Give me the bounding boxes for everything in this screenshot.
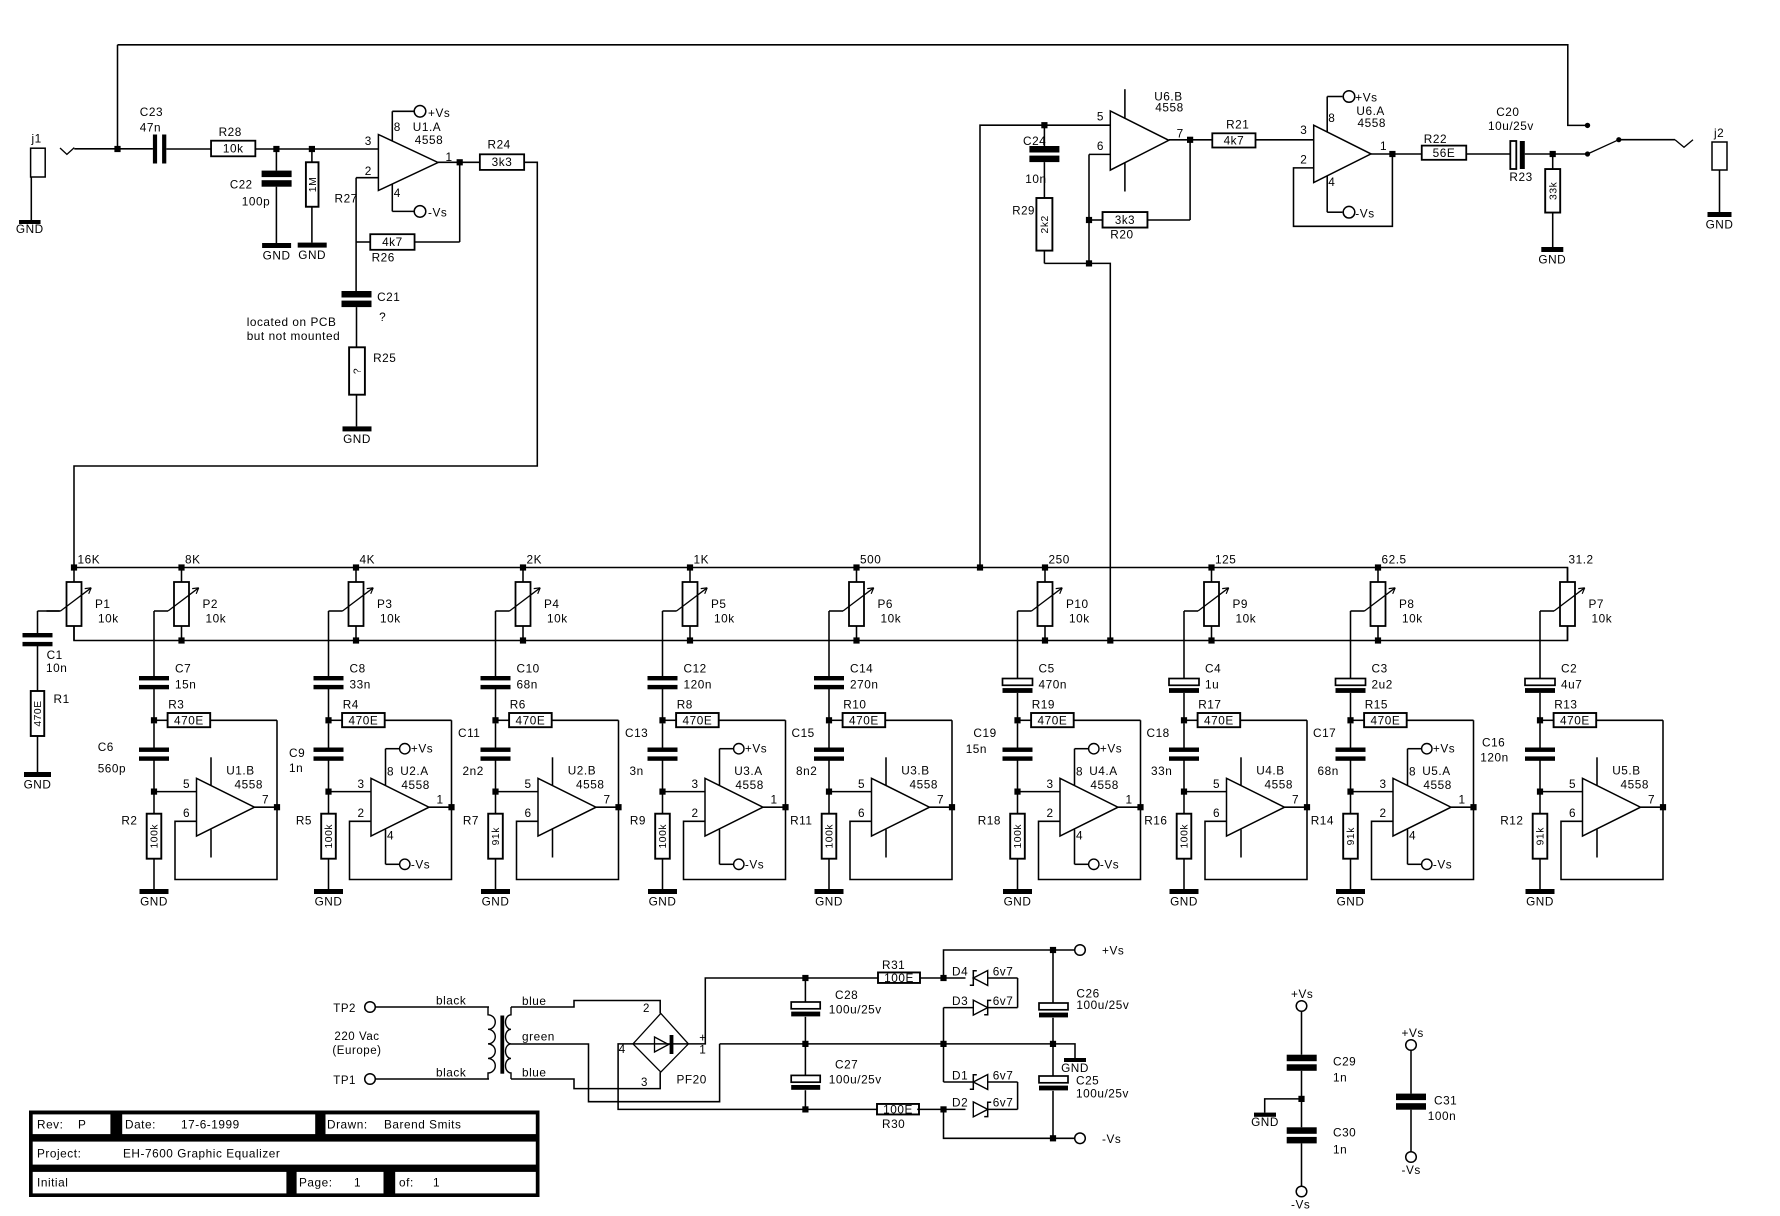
capacitor C13 3n — [625, 723, 678, 791]
svg-text:U1.A: U1.A — [413, 120, 441, 134]
node 500 — [860, 553, 881, 567]
capacitor C21 ? (not mounted) — [342, 242, 401, 324]
junction op-amp input node — [826, 789, 832, 795]
power stubs U6.B — [1124, 89, 1126, 191]
resistor R10 470E — [829, 698, 952, 728]
svg-text:2: 2 — [1300, 152, 1307, 166]
svg-text:blue: blue — [522, 994, 547, 1008]
node 16K — [78, 553, 101, 567]
svg-text:R30: R30 — [882, 1117, 905, 1131]
resistor R27 1M — [306, 149, 358, 243]
svg-text:GND: GND — [298, 248, 326, 262]
wire P9 wiper to C4 — [1183, 611, 1185, 679]
svg-text:250: 250 — [1049, 553, 1070, 567]
switch output select — [1585, 137, 1622, 157]
svg-text:P3: P3 — [377, 597, 393, 611]
capacitor C28 100u/25v — [791, 978, 882, 1044]
svg-text:10k: 10k — [881, 612, 902, 626]
svg-text:8K: 8K — [185, 553, 201, 567]
svg-text:4: 4 — [394, 186, 401, 200]
svg-text:U3.B: U3.B — [901, 764, 929, 778]
svg-text:2K: 2K — [527, 553, 543, 567]
wire R26 to output junction — [415, 162, 460, 242]
svg-text:91k: 91k — [1536, 827, 1547, 846]
node 4K — [360, 553, 376, 567]
svg-text:C31: C31 — [1434, 1094, 1457, 1108]
svg-text:2: 2 — [358, 806, 365, 820]
svg-text:P4: P4 — [544, 597, 560, 611]
junction top bus P4 — [520, 564, 526, 570]
svg-text:located on PCB: located on PCB — [247, 315, 337, 329]
svg-text:470E: 470E — [849, 713, 879, 727]
title text of — [399, 1176, 440, 1190]
svg-text:+Vs: +Vs — [1100, 742, 1122, 756]
wire R28 to U1.A pin 3 — [256, 148, 379, 150]
svg-text:R20: R20 — [1110, 228, 1133, 242]
svg-text:470E: 470E — [516, 713, 546, 727]
svg-text:U4.B: U4.B — [1256, 764, 1284, 778]
junction bottom bus pin6 riser — [1107, 637, 1113, 643]
svg-text:C16: C16 — [1482, 736, 1505, 750]
wire P10 wiper to C5 — [1017, 611, 1019, 679]
svg-text:100k: 100k — [1180, 824, 1191, 849]
svg-text:10n: 10n — [1025, 172, 1046, 186]
svg-text:C12: C12 — [684, 661, 707, 675]
wire TP2 to transformer primary (black) — [375, 994, 489, 1008]
ground R2 — [140, 889, 169, 909]
svg-text:4558: 4558 — [1423, 778, 1451, 792]
wire bridge pin 4 to negative rail — [618, 1044, 879, 1110]
svg-text:6v7: 6v7 — [993, 994, 1014, 1008]
ground C29/C30 — [1251, 1113, 1279, 1130]
capacitor C8 33n — [314, 661, 371, 720]
junction U5.B output — [1660, 804, 1666, 810]
wire U2.B feedback loop — [517, 720, 619, 879]
title text initial — [37, 1176, 68, 1190]
svg-text:C6: C6 — [98, 740, 114, 754]
svg-text:P7: P7 — [1589, 597, 1605, 611]
svg-text:8: 8 — [1328, 111, 1335, 125]
svg-text:62.5: 62.5 — [1382, 553, 1407, 567]
svg-text:4558: 4558 — [576, 777, 604, 791]
svg-text:470E: 470E — [33, 700, 44, 726]
svg-text:4: 4 — [1076, 829, 1083, 843]
junction U3.B output — [949, 804, 955, 810]
svg-text:Initial: Initial — [37, 1176, 68, 1190]
capacitor C10 68n — [481, 661, 540, 720]
resistor R7 91k — [463, 792, 503, 889]
capacitor C15 8n2 — [792, 723, 845, 791]
pin 8 +Vs U2.A — [386, 742, 434, 785]
terminal +Vs C31 — [1402, 1026, 1424, 1050]
node 62.5 — [1382, 553, 1407, 567]
zener diode D3 6v7 — [952, 994, 1013, 1015]
svg-text:33k: 33k — [1548, 181, 1559, 200]
resistor R11 100k — [790, 792, 836, 889]
node 31.2 — [1569, 553, 1594, 567]
junction R29 / pin6 node — [1086, 260, 1092, 266]
power stubs U2.B — [552, 757, 554, 857]
bridge rectifier PF20 — [619, 1003, 707, 1089]
svg-text:100p: 100p — [242, 195, 270, 209]
node 125 — [1215, 553, 1236, 567]
wire D3 to 0V rail — [944, 1008, 974, 1044]
wire TP1 to transformer primary (black) — [375, 1066, 489, 1080]
svg-text:5: 5 — [858, 777, 865, 791]
svg-text:R4: R4 — [343, 698, 359, 712]
terminal -Vs C31 — [1402, 1152, 1421, 1177]
junction bottom bus P5 — [687, 637, 693, 643]
op-amp U1.B 4558 — [183, 764, 269, 836]
terminal -Vs C30 — [1291, 1186, 1310, 1211]
capacitor C17 68n — [1313, 723, 1366, 791]
svg-text:C28: C28 — [835, 988, 858, 1002]
svg-text:?: ? — [379, 310, 386, 324]
capacitor C31 100n — [1396, 1050, 1457, 1151]
svg-text:R29: R29 — [1012, 206, 1035, 218]
svg-text:Date:: Date: — [125, 1118, 156, 1132]
svg-text:6v7: 6v7 — [993, 1096, 1014, 1110]
potentiometer P2 10k — [154, 568, 226, 641]
svg-text:Rev:: Rev: — [37, 1118, 63, 1132]
junction top bus P9 — [1208, 564, 1214, 570]
svg-text:+Vs: +Vs — [1291, 987, 1313, 1001]
wire U1.A output — [438, 161, 480, 163]
wire D1 to 0V rail — [944, 1044, 974, 1082]
svg-text:R6: R6 — [510, 698, 526, 712]
svg-text:100k: 100k — [1013, 824, 1024, 849]
wire to U4.A +input — [1018, 791, 1061, 793]
op-amp U4.B 4558 — [1213, 764, 1299, 836]
svg-text:R23: R23 — [1509, 170, 1532, 184]
svg-text:7: 7 — [1177, 127, 1184, 141]
capacitor C29 1n — [1287, 1011, 1357, 1127]
svg-text:2: 2 — [365, 164, 372, 178]
resistor R3 470E — [154, 698, 277, 728]
wire P2 wiper to C7 — [153, 611, 155, 676]
svg-text:j2: j2 — [1713, 126, 1724, 140]
resistor R15 470E — [1351, 698, 1474, 728]
terminal +Vs C29 — [1291, 987, 1313, 1011]
svg-text:GND: GND — [343, 432, 371, 446]
svg-text:470E: 470E — [1371, 713, 1401, 727]
node bypass contact dot — [1585, 123, 1590, 128]
svg-text:C11: C11 — [458, 726, 480, 740]
svg-text:7: 7 — [937, 793, 944, 807]
svg-text:1n: 1n — [289, 761, 303, 775]
svg-text:100u/25v: 100u/25v — [829, 1072, 882, 1086]
ground R9 — [648, 889, 677, 909]
svg-text:U4.A: U4.A — [1089, 764, 1117, 778]
svg-text:3: 3 — [1047, 777, 1054, 791]
svg-text:31.2: 31.2 — [1569, 553, 1594, 567]
svg-text:R28: R28 — [219, 125, 242, 139]
svg-text:C18: C18 — [1147, 726, 1170, 740]
junction R10 node — [826, 717, 832, 723]
resistor R18 100k — [978, 792, 1025, 889]
resistor R19 470E — [1018, 698, 1141, 728]
wire top bypass bus — [118, 45, 1588, 126]
svg-text:R10: R10 — [843, 698, 866, 712]
svg-text:10k: 10k — [206, 612, 227, 626]
svg-text:C17: C17 — [1313, 726, 1336, 740]
svg-text:10k: 10k — [380, 612, 401, 626]
svg-text:100u/25v: 100u/25v — [829, 1002, 882, 1016]
junction R8 node — [659, 717, 665, 723]
svg-text:100k: 100k — [324, 824, 335, 849]
svg-text:U3.A: U3.A — [734, 764, 762, 778]
svg-text:2n2: 2n2 — [463, 764, 484, 778]
junction op-amp input node — [659, 789, 665, 795]
power stubs U4.B — [1240, 757, 1242, 857]
junction top bus P5 — [687, 564, 693, 570]
svg-text:4558: 4558 — [1155, 101, 1183, 115]
svg-text:-Vs: -Vs — [745, 857, 764, 871]
potentiometer P1 10k — [47, 568, 119, 641]
junction top bus U6.B riser — [977, 564, 983, 570]
junction R4 node — [325, 717, 331, 723]
svg-text:R31: R31 — [882, 958, 905, 972]
svg-text:1: 1 — [1459, 793, 1466, 807]
wire input to C23 — [74, 148, 153, 150]
svg-text:GND: GND — [1170, 895, 1198, 909]
ground R18 — [1003, 889, 1032, 909]
svg-text:470E: 470E — [349, 713, 379, 727]
svg-text:P6: P6 — [878, 597, 894, 611]
zener diode D4 6v7 — [952, 964, 1013, 985]
svg-text:-Vs: -Vs — [1433, 857, 1452, 871]
svg-text:56E: 56E — [1433, 146, 1456, 160]
svg-text:of:: of: — [399, 1176, 414, 1190]
svg-text:PF20: PF20 — [677, 1073, 707, 1087]
junction R31 right / D4 — [940, 975, 946, 981]
junction C28 top — [802, 975, 808, 981]
op-amp U5.B 4558 — [1569, 764, 1655, 836]
svg-text:D3: D3 — [952, 994, 968, 1008]
svg-text:1: 1 — [1380, 139, 1387, 153]
wire U4.A feedback loop — [1039, 720, 1141, 879]
svg-text:C10: C10 — [517, 661, 540, 675]
op-amp U6.A 4558 — [1300, 104, 1387, 182]
svg-text:470E: 470E — [683, 713, 713, 727]
svg-text:1n: 1n — [1333, 1143, 1347, 1157]
junction op-amp input node — [325, 789, 331, 795]
potentiometer P3 10k — [329, 568, 401, 641]
resistor R31 100E — [878, 958, 920, 985]
svg-text:-Vs: -Vs — [411, 857, 430, 871]
svg-text:3k3: 3k3 — [492, 155, 513, 169]
svg-text:1: 1 — [771, 793, 778, 807]
svg-text:100n: 100n — [1428, 1109, 1456, 1123]
resistor R12 91k — [1500, 792, 1547, 889]
svg-text:8: 8 — [387, 765, 394, 779]
potentiometer P4 10k — [496, 568, 568, 641]
wire D2 to D1 — [988, 1082, 1018, 1109]
wire U6.A output — [1371, 153, 1422, 155]
op-amp U3.A 4558 — [692, 764, 778, 836]
junction U6.A output — [1389, 151, 1395, 157]
svg-text:470E: 470E — [1204, 713, 1234, 727]
wire secondary top (blue) to bridge pin 2 — [511, 994, 660, 1013]
wire U1.A pin 2 feedback — [356, 178, 378, 242]
svg-text:2: 2 — [692, 806, 699, 820]
terminal +Vs — [1075, 944, 1125, 958]
svg-text:R11: R11 — [790, 814, 812, 828]
pin 4 -Vs U2.A — [386, 829, 431, 872]
svg-text:R3: R3 — [168, 698, 184, 712]
svg-text:7: 7 — [262, 793, 269, 807]
svg-text:R14: R14 — [1311, 814, 1334, 828]
svg-text:7: 7 — [1292, 793, 1299, 807]
svg-text:3: 3 — [1380, 777, 1387, 791]
svg-text:Project:: Project: — [37, 1147, 81, 1161]
svg-text:560p: 560p — [98, 762, 126, 776]
junction U6.B output — [1187, 137, 1193, 143]
svg-text:TP2: TP2 — [333, 1003, 356, 1015]
svg-text:C19: C19 — [973, 726, 996, 740]
svg-text:68n: 68n — [517, 677, 538, 691]
svg-text:4558: 4558 — [910, 777, 938, 791]
junction R17 node — [1181, 717, 1187, 723]
junction U5.A output — [1470, 804, 1476, 810]
ground j2 — [1706, 212, 1734, 232]
svg-text:R25: R25 — [373, 351, 396, 365]
pin 4 -Vs U3.A — [720, 830, 765, 872]
svg-text:GND: GND — [315, 895, 343, 909]
svg-text:100k: 100k — [825, 824, 836, 849]
svg-text:1: 1 — [354, 1176, 361, 1190]
svg-text:10k: 10k — [714, 612, 735, 626]
junction C22 node — [273, 146, 279, 152]
svg-text:GND: GND — [263, 249, 291, 263]
svg-text:6v7: 6v7 — [993, 964, 1014, 978]
svg-text:C4: C4 — [1205, 661, 1221, 675]
svg-text:270n: 270n — [850, 677, 878, 691]
svg-text:P1: P1 — [95, 597, 111, 611]
test point TP2 — [333, 1002, 375, 1015]
svg-text:2: 2 — [643, 1003, 650, 1015]
junction C27 bottom — [802, 1106, 808, 1112]
wire R21 to U6.A pin 3 — [1255, 139, 1313, 141]
svg-text:15n: 15n — [966, 742, 987, 756]
svg-text:10k: 10k — [547, 612, 568, 626]
resistor R17 470E — [1184, 698, 1307, 728]
wire R24 to filter bus feed — [74, 162, 537, 567]
wire switch to j2 — [1619, 139, 1675, 141]
svg-text:2: 2 — [1047, 806, 1054, 820]
svg-text:+Vs: +Vs — [411, 742, 433, 756]
junction op-amp input node — [151, 789, 157, 795]
wire U6.A pin 2 feedback loop — [1294, 154, 1393, 226]
svg-text:470n: 470n — [1039, 677, 1067, 691]
junction R30 right / D2 — [940, 1106, 946, 1112]
svg-text:470E: 470E — [1560, 713, 1590, 727]
resistor R2 100k — [121, 792, 161, 889]
junction R13 node — [1537, 717, 1543, 723]
op-amp U5.A 4558 — [1380, 764, 1466, 836]
junction R19 node — [1014, 717, 1020, 723]
ground R14 — [1336, 889, 1365, 909]
svg-text:GND: GND — [482, 895, 510, 909]
svg-text:GND: GND — [16, 222, 44, 236]
svg-text:4u7: 4u7 — [1561, 677, 1582, 691]
pin 8 +Vs U1.A — [392, 106, 450, 142]
svg-text:1: 1 — [437, 793, 444, 807]
svg-text:6: 6 — [858, 806, 865, 820]
resistor R21 4k7 — [1212, 117, 1255, 147]
wire U3.A feedback loop — [684, 720, 786, 879]
svg-text:+Vs: +Vs — [1402, 1026, 1424, 1040]
capacitor C6 560p — [98, 723, 169, 791]
svg-text:3k3: 3k3 — [1115, 215, 1135, 227]
svg-text:but not mounted: but not mounted — [247, 329, 341, 343]
junction op-amp input node — [492, 789, 498, 795]
wire U4.B feedback loop — [1205, 720, 1307, 879]
svg-text:1K: 1K — [694, 553, 710, 567]
svg-text:GND: GND — [140, 895, 168, 909]
svg-text:15n: 15n — [175, 677, 196, 691]
svg-text:10k: 10k — [1069, 612, 1090, 626]
wire positive rail to +Vs — [944, 950, 1075, 978]
svg-text:GND: GND — [1251, 1115, 1279, 1129]
svg-text:U5.A: U5.A — [1422, 764, 1450, 778]
wire U1.B feedback loop — [175, 720, 277, 879]
wire U5.B feedback loop — [1561, 720, 1663, 879]
svg-text:2u2: 2u2 — [1372, 677, 1393, 691]
capacitor C5 470n — [1003, 661, 1067, 720]
junction U2.B output — [615, 804, 621, 810]
svg-text:C25: C25 — [1076, 1074, 1099, 1088]
svg-text:4558: 4558 — [415, 133, 443, 147]
title text page — [299, 1176, 361, 1190]
svg-text:1: 1 — [1126, 793, 1133, 807]
capacitor C23 47n — [140, 105, 167, 164]
wire U6.B output — [1169, 139, 1212, 141]
potentiometer P6 10k — [829, 568, 901, 641]
svg-text:GND: GND — [1337, 895, 1365, 909]
svg-text:R21: R21 — [1226, 117, 1249, 131]
svg-text:-Vs: -Vs — [1100, 857, 1119, 871]
svg-text:4558: 4558 — [235, 777, 263, 791]
svg-text:7: 7 — [604, 793, 611, 807]
connector j1 input jack — [31, 131, 46, 220]
svg-text:P5: P5 — [711, 597, 727, 611]
ground R5 — [314, 889, 343, 909]
wire P4 wiper to C10 — [495, 611, 497, 676]
wire U2.A feedback loop — [350, 720, 452, 879]
svg-text:R13: R13 — [1554, 698, 1577, 712]
svg-text:GND: GND — [1706, 218, 1734, 232]
svg-text:C23: C23 — [140, 105, 163, 119]
svg-text:3: 3 — [358, 777, 365, 791]
wire secondary bottom (blue) to bridge pin 3 — [511, 1066, 660, 1089]
svg-text:R7: R7 — [463, 814, 479, 828]
svg-text:100k: 100k — [658, 824, 669, 849]
junction op-amp input node — [1537, 789, 1543, 795]
power stubs U1.B — [210, 757, 212, 857]
wire to U3.B +input — [829, 791, 872, 793]
svg-text:?: ? — [353, 368, 364, 374]
svg-text:33n: 33n — [350, 677, 371, 691]
svg-text:8n2: 8n2 — [796, 764, 817, 778]
svg-text:6v7: 6v7 — [993, 1068, 1014, 1082]
svg-text:100E: 100E — [884, 971, 914, 985]
transformer T1 secondary winding — [506, 1007, 512, 1079]
junction R6 node — [492, 717, 498, 723]
svg-text:GND: GND — [1526, 895, 1554, 909]
svg-text:GND: GND — [649, 895, 677, 909]
node 1K — [694, 553, 710, 567]
